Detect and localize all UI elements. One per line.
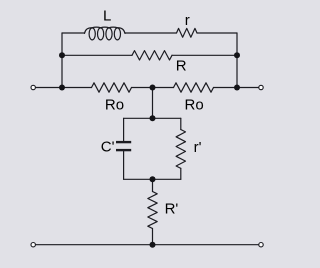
wire middle branch left [62,54,132,56]
wire block bottom rail [124,178,181,180]
wire bottom rail [35,244,258,246]
wire left vertical rail [61,33,63,88]
node junction left main [59,85,65,91]
resistor R0 right [174,83,214,92]
svg-text:L: L [103,8,111,25]
wire right vertical rail [236,33,238,88]
svg-text:R: R [176,57,187,74]
resistor r' [176,130,185,169]
resistor r [177,28,198,37]
svg-text:Ro: Ro [185,97,204,114]
node junction right middle [234,52,240,58]
wire main line center [132,87,174,89]
node junction block bottom [150,176,156,182]
svg-text:R': R' [165,200,179,217]
inductor L [85,27,126,40]
svg-text:r': r' [194,139,202,156]
terminal input bottom [31,243,35,247]
wire capacitor bottom lead [123,151,125,179]
terminal output bottom [259,243,263,247]
node junction block top [150,115,156,121]
node junction bottom rail [150,242,156,248]
wire main line left [35,87,91,89]
wire top branch right lead [197,32,237,34]
node junction right main [234,85,240,91]
wire capacitor top lead [123,118,125,141]
svg-text:r: r [185,12,190,29]
wire r' bottom lead [180,168,182,179]
wire between L and r [125,32,177,34]
wire r' top lead [180,118,182,129]
wire block top rail [124,117,181,119]
svg-text:C': C' [101,139,115,156]
terminal output top [259,85,263,89]
resistor R0 left [92,83,132,92]
wire shunt top [152,88,154,119]
wire R' top lead [152,179,154,191]
wire R' bottom lead [152,229,154,245]
wire top branch left lead [62,32,85,34]
wire middle branch right [172,54,237,56]
svg-text:Ro: Ro [105,96,124,113]
node junction left middle [59,52,65,58]
wire main line right [214,87,259,89]
node junction center main [150,85,156,91]
terminal input top [31,85,35,89]
resistor R' [148,192,157,229]
capacitor C' [116,142,131,150]
resistor R [132,51,172,60]
